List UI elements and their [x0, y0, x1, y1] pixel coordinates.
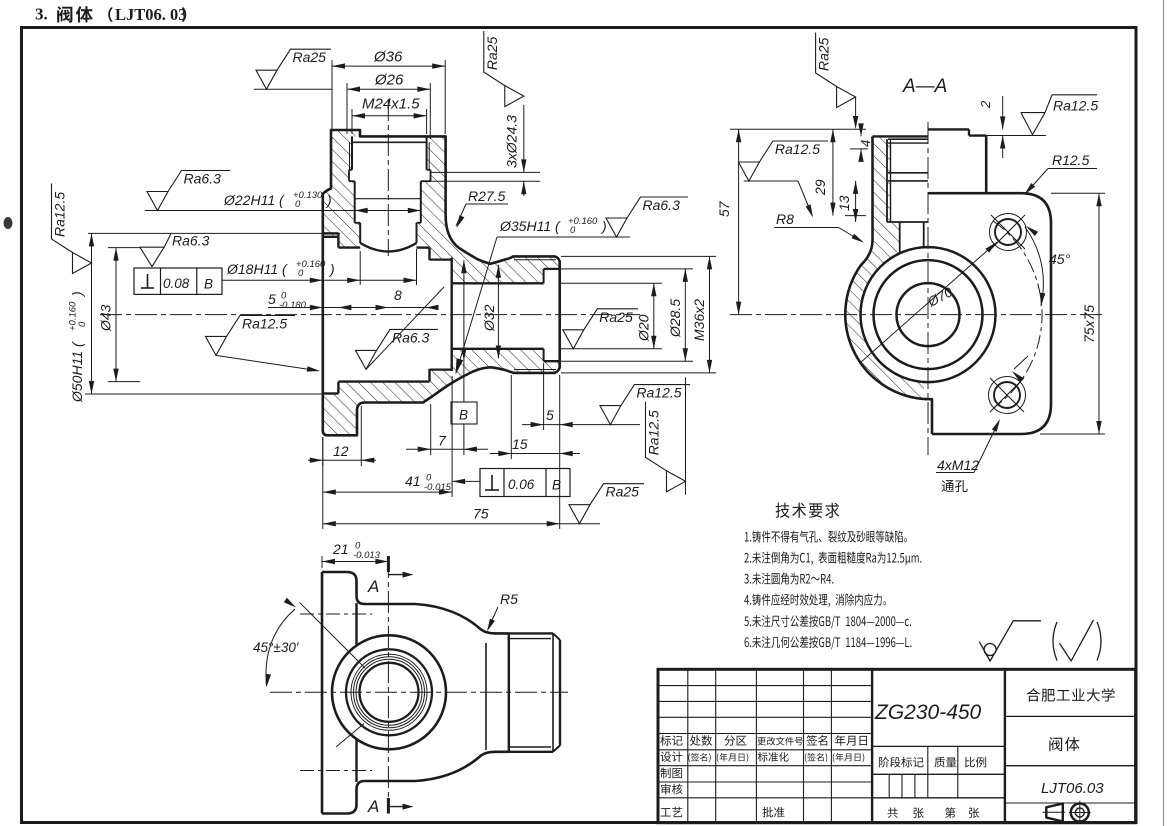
svg-text:M36x2: M36x2: [691, 299, 707, 341]
svg-text:Ø22H11 (: Ø22H11 (: [223, 192, 285, 208]
dim 5 -0.180 and dim 8: [268, 307, 430, 309]
dim Ø20: [561, 282, 662, 284]
45 degree arc dim: [1025, 227, 1043, 306]
svg-text:57: 57: [716, 200, 732, 217]
A-A top faces: [873, 135, 929, 137]
svg-text:0: 0: [77, 321, 88, 327]
dim Ø26: [346, 83, 348, 134]
main axis centerline: [100, 314, 640, 316]
svg-text:8: 8: [394, 287, 402, 303]
Ø28.5 counterbore lines: [544, 268, 560, 270]
Ø20 middle bore lines: [452, 282, 544, 284]
A-A outer boundary arc and wall: [845, 136, 932, 434]
tolerance frame 0.08 B: [134, 268, 222, 294]
svg-text:A: A: [367, 797, 379, 816]
surface mark Ra25 on dim-75 line: [560, 523, 600, 525]
svg-text:Ra25: Ra25: [606, 484, 640, 500]
dim 13: [855, 181, 857, 222]
title block main dividers: [871, 669, 873, 822]
svg-text:Ra12.5: Ra12.5: [1053, 98, 1098, 114]
svg-text:0.06: 0.06: [508, 477, 535, 492]
svg-text:Ø20: Ø20: [636, 314, 652, 342]
svg-text:3.: 3.: [35, 5, 48, 24]
svg-text:B: B: [459, 408, 468, 423]
svg-text:21: 21: [332, 541, 349, 557]
stem M24 bore walls: [351, 136, 353, 169]
svg-text:5: 5: [268, 291, 276, 307]
svg-text:Ø43: Ø43: [98, 304, 114, 332]
svg-text:41: 41: [405, 473, 421, 489]
dim 29: [832, 129, 834, 215]
A-A bore circles: [897, 283, 960, 346]
target symbol: [1071, 804, 1089, 822]
part name: [1049, 737, 1079, 751]
main view outer profile: [323, 130, 560, 435]
surface mark Ra25 top-left: [254, 88, 332, 90]
bottom view flange plate outline: [322, 572, 509, 633]
dim 15: [510, 375, 512, 459]
svg-text:5: 5: [546, 407, 554, 423]
surface mark Ra25 rotated above A-A: [816, 33, 856, 108]
bottom view body circle: [332, 635, 446, 749]
svg-text:Ra12.5: Ra12.5: [636, 385, 681, 401]
surface mark Ra12.5 rotated on vertical ext: [685, 377, 687, 494]
svg-text:Ø26: Ø26: [374, 72, 404, 89]
dim 4: [850, 148, 868, 150]
surface mark Ra12.5 left of A-A: [744, 180, 798, 182]
A-A centerlines: [730, 314, 1105, 316]
svg-text:12: 12: [333, 443, 349, 459]
bore-chamber dome curve: [360, 243, 416, 252]
left table row lines: [658, 685, 872, 687]
dim 5 right: [522, 424, 640, 426]
surface mark Ra12.5 leader to flange face: [216, 355, 318, 370]
svg-text:Ra25: Ra25: [816, 37, 832, 71]
svg-text:0.08: 0.08: [163, 276, 190, 291]
svg-text:15: 15: [512, 436, 528, 452]
svg-text:Ø50H11 (: Ø50H11 (: [69, 341, 85, 403]
svg-text:7: 7: [438, 433, 447, 449]
svg-text:45°±30′: 45°±30′: [253, 640, 299, 655]
svg-text:B: B: [552, 478, 561, 493]
dim M24x1.5: [351, 109, 353, 134]
svg-text:Ra6.3: Ra6.3: [643, 197, 681, 213]
chamber Ø43 ceiling and floor: [338, 246, 360, 248]
title block outer: [658, 669, 1136, 822]
dim Ø28.5: [561, 268, 693, 270]
svg-text:-0.013: -0.013: [353, 550, 381, 561]
svg-text:Ø36: Ø36: [373, 49, 403, 66]
projection angle symbol: [1046, 804, 1063, 822]
counterbore Ø50 walls: [323, 236, 339, 238]
right section rows: [1005, 715, 1136, 717]
dim Ø50H11: [85, 393, 323, 395]
tech requirements heading: [776, 503, 840, 518]
svg-text:4xM12: 4xM12: [937, 457, 979, 473]
surface mark Ra6.3 below Ø50 ext line: [88, 232, 340, 234]
svg-text:Ra12.5: Ra12.5: [52, 192, 68, 237]
svg-text:3xØ24.3: 3xØ24.3: [504, 115, 520, 168]
dim Ø18H11: [222, 279, 417, 281]
svg-text:R27.5: R27.5: [468, 188, 506, 204]
Ø35 bore lines through chamber wall: [430, 258, 452, 260]
surface mark Ra12.5 on dim-5 line: [600, 385, 690, 425]
surface mark Ra6.3 on Ø35 leader line: [606, 197, 688, 237]
dim Ø22H11 with surface mark Ra6.3: [145, 210, 421, 212]
M36 thread root lines: [514, 259, 556, 261]
svg-text:Ra6.3: Ra6.3: [172, 233, 210, 249]
dim 75x75: [1051, 192, 1105, 194]
dim Ø43: [108, 247, 140, 249]
dim 57: [730, 128, 866, 130]
dim 45°±30′: [266, 609, 295, 686]
chamfer 45 diagonal lines: [299, 602, 365, 668]
A-A flange plate outline: [929, 193, 1052, 434]
R5 neck intersection line: [485, 643, 487, 750]
svg-text:Ra6.3: Ra6.3: [392, 329, 430, 345]
A-A bolt circle arc: [993, 221, 1042, 408]
svg-text:Ra25: Ra25: [599, 309, 633, 325]
main view hatch: left wall and flange: [323, 130, 360, 248]
svg-text:Ø32: Ø32: [481, 304, 497, 332]
stem centerline: [387, 99, 389, 256]
svg-text:13: 13: [836, 195, 852, 211]
tolerance frame 0.06 B: [480, 469, 570, 497]
svg-text:Ra25: Ra25: [293, 49, 327, 65]
A-A bolt hole bottom: [994, 382, 1020, 408]
dim 12: [322, 437, 324, 466]
svg-text:Ra25: Ra25: [484, 36, 500, 70]
svg-text:0: 0: [295, 199, 301, 210]
svg-text:A—A: A—A: [902, 76, 947, 97]
svg-text:LJT06.03: LJT06.03: [1041, 780, 1104, 797]
dim M36x2: [561, 255, 716, 257]
scan blob artifact: [4, 217, 13, 229]
surface mark Ra6.3 inside chamber: [366, 287, 444, 369]
svg-text:R12.5: R12.5: [1052, 152, 1090, 168]
main view hatch: right top wall/boss: [417, 136, 560, 283]
small pointer at bottom hole: [1014, 356, 1028, 369]
row 审核: [661, 784, 683, 795]
datum B box: [451, 402, 477, 424]
parenthesized check symbol: [1053, 622, 1057, 661]
dim 3xØ24.3: [431, 171, 541, 173]
A-A stem bore lines: [886, 139, 888, 222]
roughness summary symbol: [979, 621, 1041, 661]
Ø70 diagonal with label: [860, 242, 997, 363]
row 工艺 批准: [661, 807, 683, 817]
dim 2: [983, 135, 1046, 137]
A-A bolt hole top: [995, 219, 1021, 245]
step ring face: [451, 258, 453, 372]
bottom view centerlines: [270, 691, 568, 693]
Ø22 bore walls: [354, 181, 356, 223]
bottom view inner circles: [346, 649, 432, 735]
surface mark Ra25 rotated above 3xØ24.3: [484, 31, 524, 107]
svg-text:M24x1.5: M24x1.5: [362, 96, 420, 113]
row 设计: [660, 751, 682, 762]
svg-text:R5: R5: [500, 591, 518, 607]
svg-text:45°: 45°: [1049, 251, 1071, 267]
svg-text:R8: R8: [776, 211, 794, 227]
svg-text:Ra6.3: Ra6.3: [184, 171, 222, 187]
stem thread relief groove: [349, 169, 352, 171]
svg-text:75: 75: [473, 506, 489, 522]
svg-text:2: 2: [978, 100, 993, 109]
main view hatch: bottom walls: [323, 349, 560, 436]
svg-text:75x75: 75x75: [1081, 305, 1097, 343]
dim Ø32 vertical through bore: [463, 260, 465, 402]
chamber right wall: [428, 248, 430, 260]
cutting plane marks A-A: [387, 556, 390, 572]
svg-text:-0.180: -0.180: [279, 300, 307, 311]
surface mark Ra12.5 top right of A-A: [1021, 113, 1045, 135]
svg-text:Ra12.5: Ra12.5: [646, 410, 662, 455]
svg-text:Ø35H11 (: Ø35H11 (: [499, 218, 561, 234]
school name: [1027, 688, 1115, 701]
svg-text:4: 4: [858, 140, 873, 147]
dim Ø36: [331, 60, 333, 131]
left table column lines: [687, 669, 689, 822]
svg-text:29: 29: [812, 179, 828, 196]
counterbore step: [543, 269, 545, 283]
svg-text:Ø18H11 (: Ø18H11 (: [226, 261, 288, 277]
flange plate edges front view: [323, 232, 339, 234]
dim 41 -0.015: [451, 376, 453, 497]
svg-text:A: A: [367, 577, 379, 596]
svg-text:Ra12.5: Ra12.5: [775, 141, 820, 157]
threaded boss side view: [508, 633, 510, 751]
dim 21 -0.013: [321, 556, 323, 568]
Ø18 bore walls: [359, 223, 361, 243]
sheet count row: [888, 807, 898, 817]
tech requirements lines: [745, 531, 907, 543]
svg-text:LJT06. 03: LJT06. 03: [115, 5, 187, 24]
svg-text:ZG230-450: ZG230-450: [874, 701, 982, 724]
dim 7: [430, 404, 432, 455]
dim 75: [322, 437, 324, 529]
page edge line: [1163, 0, 1165, 826]
row 制图: [660, 768, 682, 779]
svg-text:Ra12.5: Ra12.5: [242, 315, 287, 331]
A-A hatch: wall band and crescent: [845, 136, 924, 399]
flange plate right edge segments: [355, 603, 357, 646]
svg-text:-0.015: -0.015: [424, 482, 452, 493]
surface mark Ra12.5 rotated left edge: [52, 184, 92, 274]
svg-text:0: 0: [298, 268, 304, 279]
middle header texts: [879, 757, 924, 768]
svg-text:0: 0: [570, 225, 576, 236]
surface mark Ra25 on Ø20 ext line: [563, 309, 638, 349]
title block texts row header: [660, 735, 682, 746]
middle section rows: [872, 745, 1005, 747]
svg-text:B: B: [204, 277, 213, 292]
svg-text:Ø28.5: Ø28.5: [667, 299, 683, 338]
